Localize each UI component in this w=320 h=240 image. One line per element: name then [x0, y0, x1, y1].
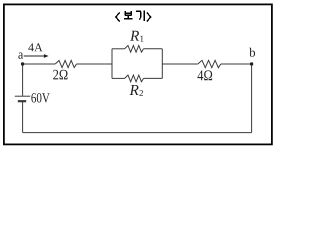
current arrow (4A direction) — [24, 55, 45, 57]
node a dot — [21, 62, 24, 65]
value label 60V — [31, 93, 49, 103]
wire node a to 2ohm resistor — [23, 63, 56, 65]
title hangul syllable 기 — [136, 10, 144, 21]
resistor R1 — [125, 45, 144, 52]
wire bottom branch right — [144, 77, 163, 79]
battery short plate — [18, 100, 26, 102]
wire top branch right — [144, 48, 163, 50]
wire 4ohm to node b — [221, 63, 252, 65]
label R2 — [129, 85, 138, 95]
wire top branch left — [112, 48, 125, 50]
wire battery top lead — [22, 64, 24, 96]
wire bottom branch left — [112, 77, 125, 79]
value label 4 ohm — [197, 70, 212, 80]
node label a — [18, 53, 23, 59]
wire 2ohm to parallel block — [77, 63, 113, 65]
wire parallel block to 4ohm resistor — [162, 63, 198, 65]
junction bar right of parallel block — [161, 49, 163, 79]
junction bar left of parallel block — [111, 49, 113, 79]
border frame — [4, 4, 272, 144]
title left angle bracket — [116, 12, 120, 21]
wire bottom rail — [23, 132, 252, 134]
resistor 2 ohm — [55, 60, 76, 67]
title hangul syllable 보 — [124, 11, 133, 19]
label R1 — [130, 31, 139, 41]
wire right vertical — [251, 64, 253, 133]
node b dot — [250, 62, 253, 65]
title right angle bracket — [147, 12, 151, 21]
title text "<보기>" (Korean: example) — [116, 10, 151, 21]
label 4A — [28, 43, 42, 51]
wire battery bottom lead — [22, 102, 24, 133]
node label b — [249, 48, 255, 57]
value label 2 ohm — [53, 70, 67, 80]
resistor 4 ohm — [198, 60, 221, 67]
battery long plate — [15, 95, 30, 97]
resistor R2 — [125, 75, 144, 82]
